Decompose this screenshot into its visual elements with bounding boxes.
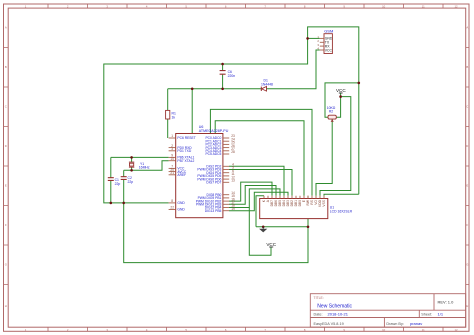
svg-text:DIG7 PD7: DIG7 PD7 [206,181,221,185]
svg-text:H: H [466,304,468,308]
resistor R1 [166,110,176,119]
svg-text:VSS: VSS [322,199,326,206]
svg-text:F: F [5,223,7,227]
svg-text:B: B [5,65,7,69]
svg-text:3: 3 [171,147,173,151]
wire GND top-right loop to VSS rail [308,27,359,194]
wire LCD VSS to GND vertical [324,194,359,195]
svg-text:VCC: VCC [325,48,333,52]
wire PB3 pin17 to LCD DB6 [229,186,276,205]
svg-text:22p: 22p [115,182,121,186]
svg-text:PB7 XTAL2: PB7 XTAL2 [177,159,194,163]
svg-text:R2: R2 [329,110,333,114]
wire VCC branch to LCD VDD [320,97,351,196]
junction dot 12 [307,226,310,229]
svg-text:22p: 22p [128,180,134,184]
capacitor C1 [108,178,121,186]
svg-text:PC5 ADC5: PC5 ADC5 [205,152,221,156]
wire XTAL2 to crystal bottom [124,161,169,171]
svg-text:E: E [5,184,7,188]
svg-text:GND: GND [177,208,185,212]
wire GND bridge to R2 left [325,83,359,117]
wire node E route to LCD E [215,121,304,196]
svg-text:PD1 TXD: PD1 TXD [177,149,191,153]
svg-text:F: F [466,223,468,227]
wire crystal bottom lead [131,167,133,170]
svg-text:VCC: VCC [266,242,276,247]
junction dot 6 [339,95,342,98]
wire LCD bottom ground rail [256,226,308,228]
capacitor C2 [121,176,134,184]
crystal Y1 [129,162,150,170]
svg-text:10: 10 [170,157,174,161]
wire R1 top lead [167,89,169,111]
junction dot 11 [262,226,265,229]
svg-text:VCC: VCC [336,88,346,93]
wire XTAL1 to crystal top [111,156,169,158]
svg-text:G: G [5,263,7,267]
svg-text:pranav: pranav [410,321,422,326]
VCC flag bottom [266,242,276,247]
wire PD2 pin4 to LCD DB4 [229,166,284,195]
svg-text:ATMEGA328P-PU: ATMEGA328P-PU [199,129,229,133]
wire crystal top lead [131,157,133,162]
svg-text:GND: GND [177,201,185,205]
wire stray stub at chip top [191,89,193,159]
ground symbol below LCD [259,227,267,233]
wire GSM VCC down and left through D1 to R1 top [168,50,320,89]
junction dot 2 [221,88,224,91]
wire C2 top lead [123,170,125,176]
svg-text:LCD 16X2SLR: LCD 16X2SLR [330,210,353,214]
svg-text:11: 11 [422,5,425,9]
svg-text:22: 22 [170,206,174,210]
svg-text:10: 10 [382,328,386,332]
potentiometer R2 [327,106,337,122]
junction dot 5 [358,82,361,85]
svg-text:11: 11 [422,328,425,332]
svg-text:B: B [466,65,468,69]
wire C6 top lead [222,64,224,70]
wire PB2 pin16 to LCD DB7 [229,182,272,201]
VCC flag right [336,88,346,93]
wire PD3 pin5 to LCD DB2 [229,170,292,196]
wire R2 wiper to LCD VO [316,119,332,196]
title block [310,294,465,328]
wire PB4 pin18 to LCD DB5 [229,189,280,208]
svg-text:TITLE:: TITLE: [314,296,324,300]
wire C6 bottom lead [222,75,224,89]
wire C1 top lead [110,157,112,177]
capacitor C6 [220,70,236,78]
svg-text:DIG13 PB5: DIG13 PB5 [205,209,222,213]
svg-text:28: 28 [231,150,235,154]
wire GND top rail left and down to ground rail [104,38,308,203]
svg-text:12: 12 [454,328,458,332]
svg-text:Date:: Date: [314,313,323,317]
svg-text:13: 13 [231,179,235,183]
svg-text:D: D [466,144,468,148]
svg-text:C: C [466,105,468,109]
svg-text:New Schematic: New Schematic [317,303,352,309]
op-amp U6 ATMEGA328P-PU [169,125,235,218]
svg-text:E: E [466,184,468,188]
svg-text:19: 19 [231,207,235,211]
wire C1 bottom to ground rail [110,181,112,203]
svg-text:H: H [5,304,7,308]
wire LCD K pin hook to ground rail [256,196,264,227]
svg-text:2018-10-21: 2018-10-21 [328,312,349,317]
svg-text:A: A [466,26,468,30]
svg-text:220n: 220n [228,74,236,78]
svg-text:PC6 RESET: PC6 RESET [177,136,195,140]
junction dot 1 [221,63,224,66]
svg-text:1N4448: 1N4448 [261,82,273,86]
svg-text:10: 10 [382,5,386,9]
svg-text:EasyEDA V5.8.19: EasyEDA V5.8.19 [314,322,344,326]
wire bottom VCC flag feed [249,208,271,256]
svg-text:GSM: GSM [324,29,333,34]
svg-text:A: A [5,26,7,30]
wire node RS route to LCD RS [210,109,312,217]
connector P1 GSM [317,29,333,54]
wire PB5 pin19 to LCD DB3 [229,192,288,210]
junction dot 9 [110,202,113,205]
svg-text:REV: 1.0: REV: 1.0 [438,300,455,305]
wire GSM GND pin to node [308,37,320,39]
junction dot 8 [130,169,133,172]
wire R1 bottom to RESET pin 1 [167,119,169,138]
svg-text:8: 8 [171,199,173,203]
svg-text:21: 21 [170,171,174,175]
svg-text:G: G [466,263,468,267]
junction dot 7 [130,156,133,159]
wire C2 bottom through rail to LCD ground loop [124,180,308,263]
junction dot 10 [122,202,125,205]
wire LCD RW pin down through body [307,196,309,227]
svg-text:1: 1 [171,134,173,138]
junction dot 4 [306,37,309,40]
svg-text:16MHz: 16MHz [139,166,150,170]
svg-text:1/1: 1/1 [438,312,444,317]
svg-text:1k: 1k [172,115,176,119]
diode D1 [261,79,273,92]
wire VCC flag to R2 right [336,93,340,118]
op-amp U1 LCD 16X2SLR [260,196,353,219]
svg-text:12: 12 [454,5,458,9]
svg-text:D: D [5,144,7,148]
svg-text:Sheet:: Sheet: [421,313,432,317]
junction dot 3 [191,88,194,91]
svg-text:Drawn By:: Drawn By: [386,322,404,326]
svg-text:AREF: AREF [177,173,186,177]
svg-text:C: C [5,105,7,109]
